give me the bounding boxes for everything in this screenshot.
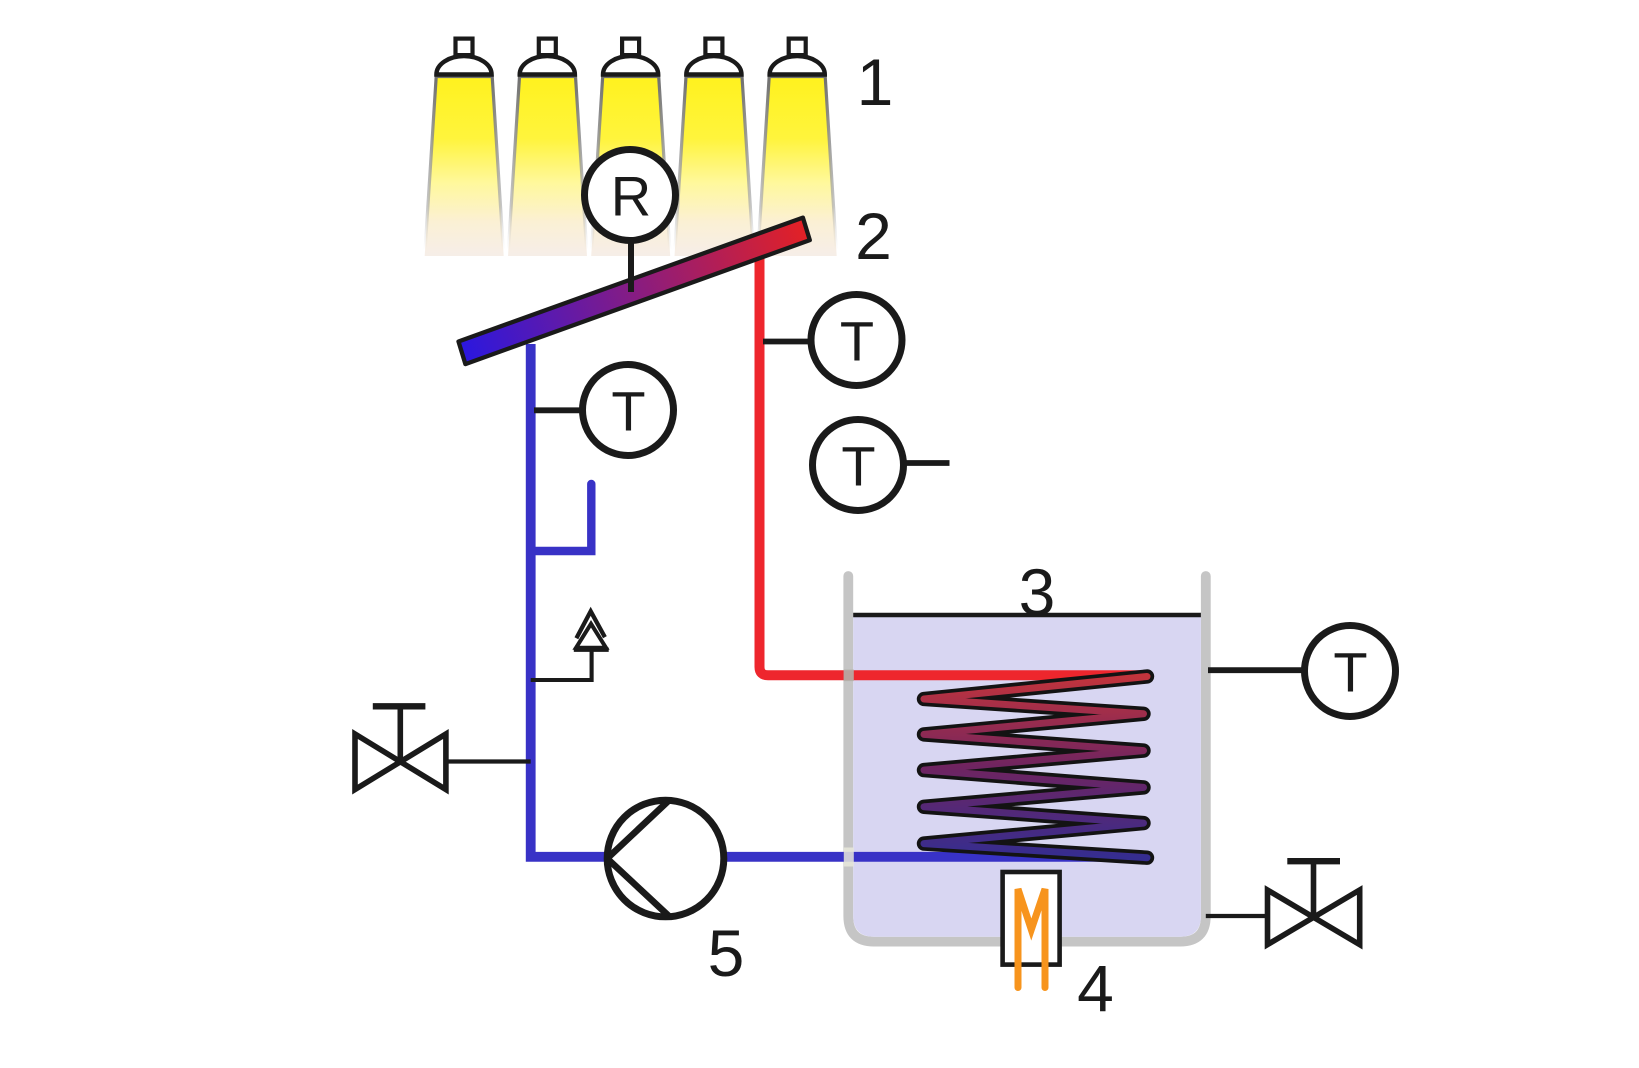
temperature sensor T4 bbox=[1305, 626, 1396, 717]
label 5 pump bbox=[708, 916, 745, 990]
svg-text:T: T bbox=[840, 309, 874, 372]
hot red pipe from collector to tank bbox=[760, 252, 1148, 675]
lamp L1 beam bbox=[425, 77, 504, 257]
svg-text:T: T bbox=[841, 434, 875, 497]
temperature sensor T1 bbox=[583, 365, 674, 456]
tank water fill bbox=[853, 615, 1201, 937]
svg-text:T: T bbox=[1333, 640, 1367, 703]
heat exchanger coil in tank bbox=[924, 677, 1147, 858]
tank wall notch over hot pipe bbox=[844, 670, 854, 682]
lamp L1 body bbox=[436, 39, 491, 75]
lamp L5 beam bbox=[758, 77, 837, 257]
svg-text:1: 1 bbox=[857, 45, 894, 119]
collector absorber plate 2 bbox=[459, 218, 810, 365]
temperature sensor T3 bbox=[813, 420, 904, 511]
svg-text:R: R bbox=[611, 164, 651, 227]
svg-text:2: 2 bbox=[855, 199, 892, 273]
svg-text:4: 4 bbox=[1077, 952, 1114, 1026]
radiation sensor R stem bbox=[628, 240, 634, 292]
drain valve V2 connector bbox=[1206, 914, 1268, 918]
svg-text:T: T bbox=[611, 379, 645, 442]
label 3 tank bbox=[1019, 555, 1056, 629]
tank vessel 3 bbox=[848, 576, 1206, 942]
lamp L5 body bbox=[770, 39, 825, 75]
svg-text:3: 3 bbox=[1019, 555, 1056, 629]
circulation pump 5 bbox=[607, 800, 724, 917]
lamp L4 beam bbox=[675, 77, 754, 257]
tank water surface line bbox=[853, 613, 1201, 618]
lamp L3 body bbox=[603, 39, 658, 75]
temperature sensor T1 connector bbox=[534, 407, 584, 413]
drain valve V2 bbox=[1268, 861, 1360, 944]
drain valve V1 connector bbox=[446, 759, 531, 763]
label 4 heater bbox=[1077, 952, 1114, 1026]
lamp L3 beam bbox=[591, 77, 670, 257]
drain valve V1 bbox=[355, 706, 446, 789]
lamp L4 body bbox=[686, 39, 741, 75]
lamp L2 body bbox=[520, 39, 575, 75]
label 1 lamp bank bbox=[857, 45, 894, 119]
electric heater element 4 bbox=[1003, 872, 1060, 988]
label 2 collector bbox=[855, 199, 892, 273]
svg-text:5: 5 bbox=[708, 916, 745, 990]
temperature sensor T3 connector bbox=[904, 460, 950, 466]
air vent symbol bbox=[574, 611, 609, 649]
temperature sensor T4 connector bbox=[1208, 667, 1306, 673]
radiation sensor R bbox=[585, 150, 676, 241]
blue expansion branch pipe bbox=[531, 484, 592, 551]
cold blue pipe from pump to tank coil bbox=[725, 852, 1147, 862]
cold blue pipe from collector down to pump bbox=[531, 344, 606, 857]
temperature sensor T2 bbox=[811, 295, 902, 386]
air vent connector bbox=[531, 651, 592, 680]
lamp L2 beam bbox=[508, 77, 587, 257]
tank wall notch over cold pipe bbox=[844, 848, 854, 867]
temperature sensor T2 connector bbox=[763, 339, 812, 345]
